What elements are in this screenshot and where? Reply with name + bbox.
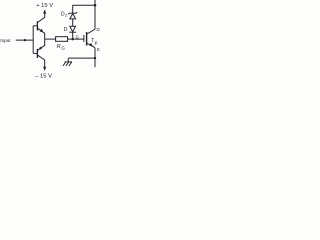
svg-text:D: D [97,27,100,32]
svg-text:E: E [97,47,100,52]
svg-text:p: p [95,40,98,45]
svg-text:– 15 V: – 15 V [35,73,52,79]
svg-text:Input: Input [0,38,11,43]
svg-text:G: G [76,34,80,39]
svg-text:R: R [57,44,61,50]
svg-text:+ 15 V: + 15 V [36,3,53,9]
svg-text:D: D [64,27,68,33]
svg-text:G: G [61,45,65,50]
